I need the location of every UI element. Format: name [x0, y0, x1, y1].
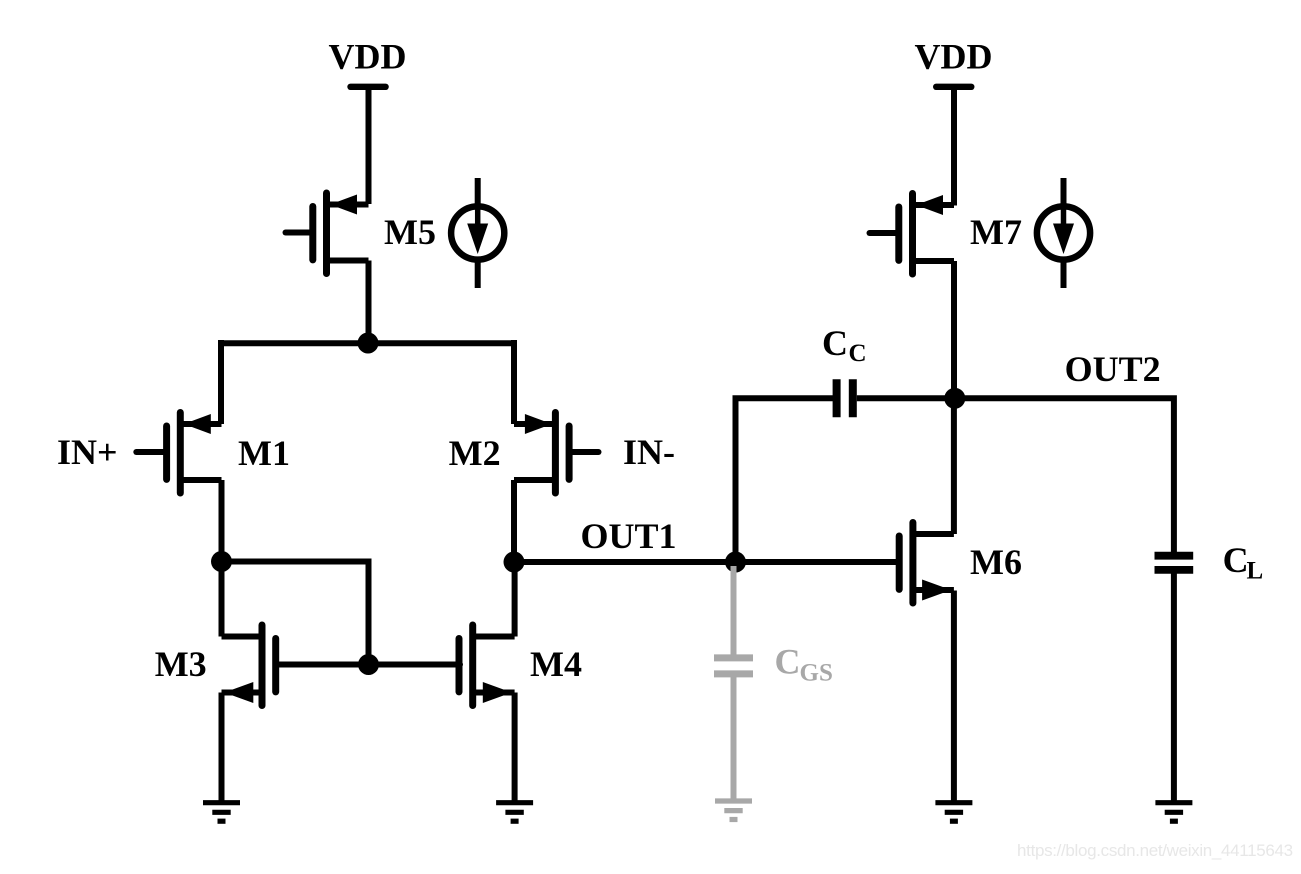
- ground under CL: [1155, 803, 1192, 822]
- gray wire CGS to ground: [731, 674, 737, 801]
- transistor M6 (NMOS): [899, 523, 954, 604]
- wire rail to M2 source: [511, 340, 517, 424]
- wire tail rail: [221, 340, 514, 346]
- label CL: [1223, 540, 1264, 585]
- wire OUT1 node up to Cc: [736, 398, 833, 562]
- current source I1 (bias, beside M5): [451, 178, 504, 288]
- wire M7 drain to OUT2 node: [951, 261, 957, 398]
- wire OUT2 node to M6 drain: [951, 398, 957, 534]
- transistor M1 (PMOS): [136, 413, 221, 494]
- svg-text:C: C: [775, 642, 801, 682]
- wire M5 drain to tail node: [366, 261, 372, 344]
- svg-text:OUT1: OUT1: [581, 516, 677, 556]
- capacitor CGS (parasitic, gray): [714, 658, 753, 674]
- ground under M6: [935, 803, 972, 822]
- node OUT1 at M2/M4 drains: [504, 552, 525, 573]
- wire OUT1 to M6 gate: [514, 559, 899, 565]
- wire Cc to OUT2 node: [857, 395, 955, 401]
- svg-text:VDD: VDD: [915, 37, 993, 77]
- wire M3-M4 gate bus: [278, 662, 461, 668]
- transistor M5 (PMOS): [286, 193, 369, 274]
- node OUT2 junction: [944, 388, 965, 409]
- transistor M4 (NMOS): [459, 625, 515, 706]
- svg-text:M7: M7: [970, 212, 1022, 252]
- gray ground under CGS: [715, 801, 752, 820]
- wire M4 drain to OUT1 node: [512, 562, 518, 637]
- svg-text:IN-: IN-: [623, 432, 675, 472]
- svg-text:OUT2: OUT2: [1065, 349, 1161, 389]
- wire M2 drain to OUT1 node: [511, 480, 517, 562]
- wire M4 source to ground: [512, 693, 518, 803]
- svg-text:L: L: [1247, 558, 1264, 585]
- svg-text:GS: GS: [800, 660, 833, 687]
- svg-text:C: C: [1223, 540, 1249, 580]
- wire rail to M1 source: [218, 340, 224, 424]
- transistor M2 (PMOS): [514, 413, 599, 494]
- svg-text:M3: M3: [155, 644, 207, 684]
- capacitor CC (compensation): [837, 379, 853, 417]
- label CC: [822, 323, 867, 367]
- node mirror gate junction: [358, 654, 379, 675]
- node tail junction: [358, 333, 379, 354]
- wire M3 source to ground: [219, 693, 225, 803]
- ground under M4: [496, 803, 533, 822]
- ground under M3: [203, 803, 240, 822]
- node A (M1 drain / M3 drain): [211, 551, 232, 572]
- VDD supply bar (right): [936, 84, 971, 90]
- wire M1 drain to node A: [219, 480, 225, 562]
- transistor M7 (PMOS): [870, 194, 955, 275]
- node OUT1-Cc-CGS junction: [725, 552, 746, 573]
- wire OUT2 to CL: [955, 398, 1174, 552]
- svg-text:M1: M1: [238, 433, 290, 473]
- svg-text:https://blog.csdn.net/weixin_4: https://blog.csdn.net/weixin_44115643: [1017, 841, 1293, 860]
- svg-text:M6: M6: [970, 542, 1022, 582]
- svg-text:VDD: VDD: [329, 37, 407, 77]
- svg-text:C: C: [849, 340, 867, 367]
- gray wire OUT1 node to CGS: [731, 566, 737, 655]
- svg-text:C: C: [822, 323, 848, 363]
- wire M6 source to ground: [951, 591, 957, 803]
- svg-text:M2: M2: [449, 433, 501, 473]
- wire VDD to M5 source: [366, 87, 372, 204]
- wire node A to mirror gates: [222, 562, 369, 665]
- wire CL to ground: [1171, 570, 1177, 803]
- capacitor CL (load): [1155, 556, 1194, 570]
- svg-text:M5: M5: [384, 212, 436, 252]
- transistor M3 (NMOS, diode-connected): [222, 625, 278, 706]
- svg-text:IN+: IN+: [57, 432, 118, 472]
- wire VDD to M7 source: [951, 87, 957, 206]
- VDD supply bar (left): [351, 84, 386, 90]
- svg-text:M4: M4: [530, 644, 582, 684]
- wire node A to M3 drain: [219, 562, 225, 637]
- label CGS (gray): [775, 642, 833, 687]
- current source I2 (bias, beside M7): [1037, 178, 1090, 288]
